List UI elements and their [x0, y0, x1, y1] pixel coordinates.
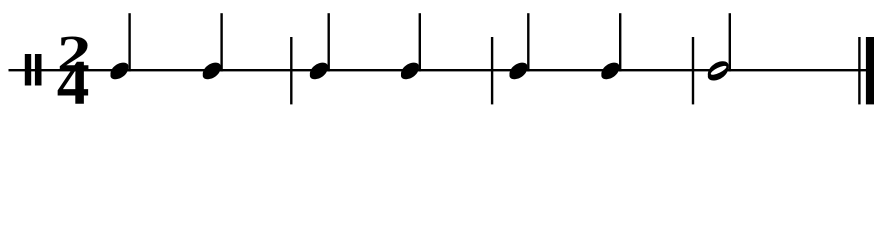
time signature denominator 4	[57, 47, 90, 117]
time signature numerator 2	[57, 26, 92, 83]
quarter note 2	[203, 13, 223, 79]
half note	[708, 13, 731, 80]
staff line	[9, 69, 875, 71]
barline 3	[692, 37, 694, 104]
quarter note 4	[401, 13, 421, 79]
quarter note 3	[310, 13, 330, 79]
barline 1	[290, 37, 292, 104]
svg-text:4: 4	[57, 47, 90, 117]
begin double bar thick stroke 1	[25, 54, 31, 86]
final barline thick stroke	[866, 37, 874, 104]
begin double bar thick stroke 2	[35, 54, 42, 86]
barline 2	[491, 37, 493, 104]
quarter note 6	[601, 13, 621, 79]
quarter note 1	[110, 13, 130, 79]
quarter note 5	[509, 13, 529, 79]
final barline thin stroke	[858, 37, 860, 104]
